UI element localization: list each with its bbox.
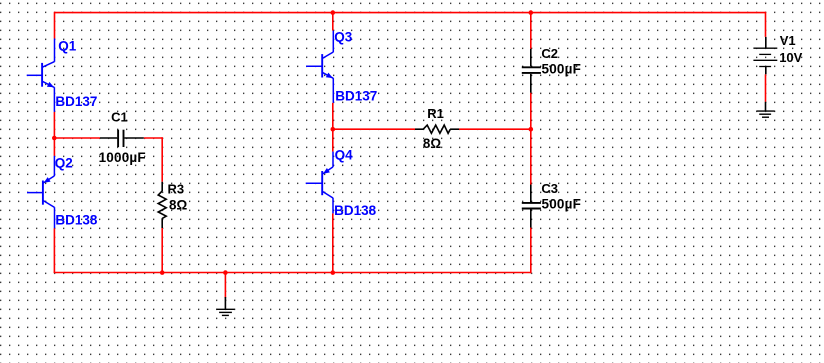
transistor Q4 bbox=[306, 152, 333, 214]
node R3 bottom rail junction bbox=[160, 270, 165, 275]
transistor Q1 bbox=[27, 39, 55, 112]
wire ground stem bbox=[224, 273, 226, 299]
capacitor C3 bbox=[522, 185, 541, 228]
svg-text:BD138: BD138 bbox=[334, 203, 377, 218]
wire C1 right to R3 bbox=[144, 137, 162, 139]
svg-text:C3: C3 bbox=[541, 181, 558, 196]
wire C2 top drop bbox=[530, 13, 532, 49]
wire Q1 collector drop bbox=[54, 12, 56, 39]
wire Q1 emitter to C1 node bbox=[53, 112, 55, 156]
wire C1 left bbox=[54, 137, 100, 139]
resistor R1 bbox=[415, 125, 459, 133]
wire Q2 collector to bottom rail bbox=[53, 228, 55, 272]
wire R3 top drop bbox=[161, 137, 163, 182]
wire C2 bottom to R1 node bbox=[530, 93, 532, 130]
svg-text:Q2: Q2 bbox=[55, 156, 73, 171]
node Q3 top rail junction bbox=[331, 10, 336, 15]
capacitor C2 bbox=[522, 49, 541, 93]
wire top rail bbox=[55, 12, 766, 14]
svg-text:BD137: BD137 bbox=[335, 89, 377, 104]
wire V1 bottom to ground bbox=[765, 74, 767, 102]
wire R1 right to C2 node bbox=[459, 128, 531, 130]
wire R1 left bbox=[333, 128, 415, 130]
ground bottom rail bbox=[216, 297, 234, 315]
node Q4 bottom rail junction bbox=[331, 270, 336, 275]
svg-text:R3: R3 bbox=[168, 181, 185, 196]
wire bottom rail bbox=[54, 272, 531, 274]
svg-text:BD138: BD138 bbox=[55, 212, 98, 227]
capacitor C1 bbox=[100, 130, 144, 147]
svg-text:BD137: BD137 bbox=[55, 94, 97, 109]
node C1/Q1/Q2 junction bbox=[52, 136, 57, 141]
node ground rail junction bbox=[223, 270, 228, 275]
wire Q4 collector to bottom rail bbox=[332, 213, 334, 272]
svg-text:V1: V1 bbox=[780, 33, 796, 48]
transistor Q2 bbox=[27, 156, 55, 228]
svg-text:8Ω: 8Ω bbox=[169, 197, 187, 212]
node R1/Q3/Q4 junction bbox=[331, 127, 336, 132]
svg-text:C1: C1 bbox=[111, 110, 128, 125]
svg-text:500µF: 500µF bbox=[542, 61, 582, 76]
wire Q3 collector drop bbox=[332, 13, 334, 31]
svg-text:Q3: Q3 bbox=[334, 29, 353, 44]
svg-text:R1: R1 bbox=[427, 106, 444, 121]
svg-text:1000µF: 1000µF bbox=[99, 150, 146, 165]
transistor Q3 bbox=[306, 31, 333, 103]
wire C3 top drop bbox=[530, 129, 532, 184]
svg-text:500µF: 500µF bbox=[542, 196, 582, 211]
node C2 top rail junction bbox=[529, 10, 534, 15]
svg-text:Q4: Q4 bbox=[335, 147, 354, 162]
svg-text:Q1: Q1 bbox=[58, 38, 77, 53]
ground V1 bbox=[757, 102, 775, 117]
svg-text:C2: C2 bbox=[541, 46, 558, 61]
resistor R3 bbox=[158, 182, 166, 228]
wire C3 bottom to rail bbox=[530, 228, 532, 274]
wire V1 top drop bbox=[765, 12, 767, 37]
svg-text:8Ω: 8Ω bbox=[423, 136, 441, 151]
wire Q3 emitter to R1 node bbox=[332, 103, 334, 152]
wire R3 bottom bbox=[161, 228, 163, 273]
svg-text:10V: 10V bbox=[779, 50, 802, 65]
node R1/C2/C3 junction bbox=[529, 127, 534, 132]
battery V1 bbox=[753, 37, 777, 74]
